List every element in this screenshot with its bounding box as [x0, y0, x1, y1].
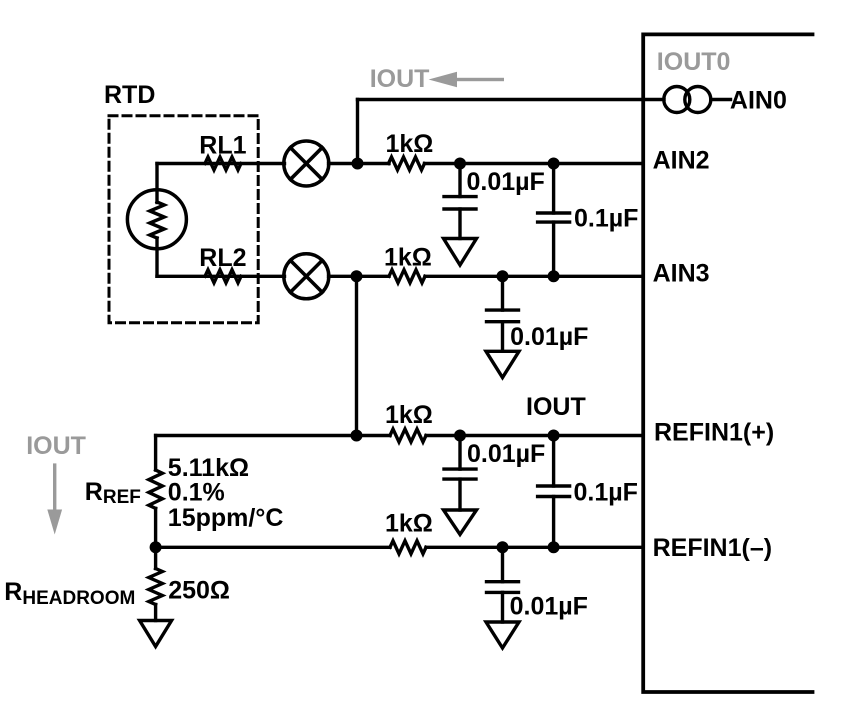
node AIN3/C3 [548, 270, 560, 282]
node REFIN1-/C5 [548, 541, 560, 553]
wire left column R_REF branch [154, 436, 157, 471]
node REFIN1+/vertical junction [351, 430, 363, 442]
node REFIN1+/C4 [454, 430, 466, 442]
capacitor C3 0.1uF (AIN2-AIN3) [552, 164, 555, 214]
svg-text:RTD: RTD [104, 81, 155, 109]
switch X2 (crossed circle, AIN3 path) [284, 254, 329, 299]
svg-text:IOUT0: IOUT0 [657, 48, 731, 76]
RTD sensor element [127, 190, 186, 249]
node REFIN1+/C5 [548, 430, 560, 442]
wire vertical IOUT to AIN2 node [356, 100, 359, 164]
svg-text:15ppm/°C: 15ppm/°C [168, 504, 284, 532]
node AIN2/C1 [454, 158, 466, 170]
capacitor C6 0.01uF (REFIN1-) [501, 547, 504, 581]
resistor RL2 [205, 270, 241, 283]
svg-text:1kΩ: 1kΩ [385, 401, 433, 429]
svg-text:0.1µF: 0.1µF [574, 479, 638, 507]
svg-text:IOUT: IOUT [370, 65, 430, 93]
wire AIN0 lead [711, 98, 731, 101]
ground below C6 [486, 622, 519, 648]
wire REFIN1(+) row [156, 434, 390, 437]
wire vertical AIN3 node to REFIN1(+) node [355, 276, 358, 435]
ground below R_HEADROOM [140, 621, 172, 647]
node AIN2/C3 [548, 158, 560, 170]
IC U1 (ADC) outline [643, 34, 812, 692]
node AIN2/vertical junction [352, 158, 364, 170]
capacitor C1 0.01uF (AIN2) [458, 164, 461, 197]
switch X1 (crossed circle, AIN2 path) [284, 141, 329, 186]
svg-text:1kΩ: 1kΩ [384, 243, 432, 271]
ground below C1 [444, 239, 477, 266]
svg-text:250Ω: 250Ω [168, 577, 230, 605]
svg-text:IOUT: IOUT [26, 432, 86, 460]
svg-text:RREF: RREF [85, 478, 141, 508]
capacitor C2 0.01uF (AIN3) [501, 276, 504, 310]
wire REFIN1(-) row [156, 546, 390, 549]
wire RTD vertical [155, 164, 158, 203]
svg-text:AIN3: AIN3 [653, 260, 710, 288]
ground below C4 [444, 510, 477, 535]
current source IOUT0 (double circle) at AIN0 [664, 87, 690, 113]
svg-text:REFIN1(–): REFIN1(–) [653, 534, 772, 562]
svg-text:0.01µF: 0.01µF [467, 168, 545, 196]
capacitor C4 0.01uF (REFIN1+) [458, 436, 461, 470]
RTD dashed box [109, 116, 258, 323]
node REFIN1-/C6 [497, 541, 509, 553]
resistor 1k AIN3 row [389, 270, 425, 283]
svg-text:RHEADROOM: RHEADROOM [4, 578, 135, 609]
gray arrow IOUT (left, pointing down) [47, 463, 62, 534]
svg-text:RL2: RL2 [199, 244, 246, 272]
resistor RL1 [205, 157, 241, 170]
svg-text:0.1%: 0.1% [168, 479, 225, 507]
svg-text:AIN0: AIN0 [730, 86, 787, 114]
resistor 1k REFIN1(+) row [390, 429, 426, 442]
resistor 1k AIN2 row [389, 157, 425, 170]
gray arrow IOUT (top, pointing left) [429, 72, 504, 88]
svg-text:0.1µF: 0.1µF [574, 204, 638, 232]
svg-text:0.01µF: 0.01µF [510, 593, 588, 621]
svg-text:0.01µF: 0.01µF [467, 440, 545, 468]
svg-text:RL1: RL1 [199, 132, 246, 160]
svg-text:1kΩ: 1kΩ [385, 510, 433, 538]
resistor R_HEADROOM vertical [149, 569, 163, 605]
resistor 1k REFIN1(-) row [390, 541, 426, 554]
node AIN3/vertical junction [351, 270, 363, 282]
svg-text:AIN2: AIN2 [653, 147, 710, 175]
resistor R_REF vertical [149, 470, 163, 508]
svg-text:IOUT: IOUT [526, 393, 586, 421]
svg-text:0.01µF: 0.01µF [510, 323, 588, 351]
svg-text:REFIN1(+): REFIN1(+) [654, 418, 774, 446]
wire AIN2 row [157, 162, 285, 165]
wire AIN3 row [157, 275, 285, 278]
wire IOUT top line [358, 98, 665, 101]
node REFIN1-/R_REF [150, 541, 162, 553]
ground below C2 [486, 351, 519, 377]
capacitor C5 0.1uF (REFIN1+ to REFIN1-) [552, 436, 555, 487]
svg-text:1kΩ: 1kΩ [386, 130, 434, 158]
node AIN3/C2 [497, 270, 509, 282]
